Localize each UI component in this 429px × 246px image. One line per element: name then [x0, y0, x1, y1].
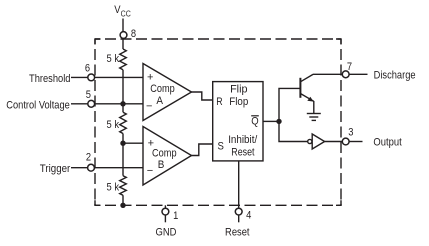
svg-text:Discharge: Discharge [374, 69, 416, 81]
svg-text:Trigger: Trigger [40, 163, 71, 175]
svg-text:CC: CC [121, 9, 131, 18]
svg-text:5: 5 [86, 89, 91, 101]
svg-text:Reset: Reset [225, 227, 250, 239]
svg-text:R: R [216, 96, 222, 108]
svg-text:−: − [147, 165, 153, 177]
svg-text:6: 6 [85, 63, 90, 75]
svg-text:4: 4 [246, 210, 251, 222]
svg-text:Reset: Reset [231, 147, 254, 159]
svg-text:Threshold: Threshold [29, 73, 71, 85]
svg-text:Control Voltage: Control Voltage [6, 99, 70, 111]
svg-text:7: 7 [347, 61, 352, 73]
svg-text:2: 2 [86, 152, 91, 164]
svg-text:1: 1 [173, 210, 178, 222]
svg-text:GND: GND [156, 227, 177, 239]
svg-text:Output: Output [373, 137, 401, 149]
svg-text:S: S [218, 141, 224, 153]
svg-text:A: A [156, 95, 163, 107]
svg-text:5 k: 5 k [107, 53, 120, 65]
svg-text:Inhibit/: Inhibit/ [228, 134, 258, 146]
svg-text:3: 3 [348, 127, 353, 139]
svg-text:8: 8 [131, 28, 136, 40]
svg-text:B: B [158, 159, 165, 171]
svg-text:Comp: Comp [152, 148, 177, 160]
svg-text:5 k: 5 k [107, 119, 120, 131]
svg-text:5 k: 5 k [107, 182, 120, 194]
svg-text:−: − [146, 101, 152, 113]
svg-text:Comp: Comp [150, 83, 175, 95]
svg-text:Q: Q [251, 116, 259, 128]
svg-text:Flip: Flip [230, 84, 247, 96]
svg-text:Flop: Flop [229, 96, 248, 108]
svg-text:+: + [147, 72, 153, 84]
